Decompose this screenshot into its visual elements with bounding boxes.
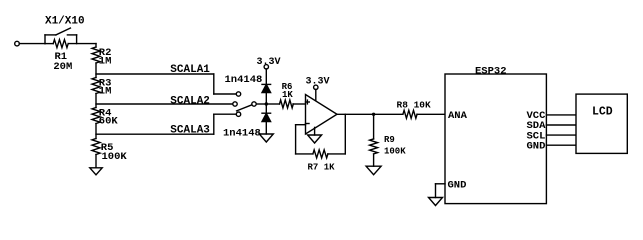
wire ESP32 GND	[436, 184, 446, 198]
wire SCL	[546, 134, 576, 136]
resistor R7	[313, 150, 328, 158]
resistor R9	[370, 114, 378, 166]
ground	[90, 168, 102, 175]
node junction	[372, 113, 375, 116]
diode D2 1n4148	[262, 113, 271, 121]
diode D1 1n4148	[262, 84, 271, 92]
switch X1/X10	[45, 28, 77, 43]
svg-text:SCALA3: SCALA3	[170, 124, 210, 136]
svg-text:R9: R9	[384, 135, 395, 145]
resistor R8	[403, 110, 417, 118]
svg-text:R8 10K: R8 10K	[397, 99, 432, 110]
wire	[265, 122, 267, 134]
svg-text:1M: 1M	[99, 86, 112, 98]
svg-text:100K: 100K	[384, 146, 406, 156]
ground	[429, 198, 443, 206]
node junction	[265, 102, 268, 105]
wire SDA	[546, 124, 576, 126]
svg-text:SCALA1: SCALA1	[170, 64, 210, 76]
op-amp U1	[306, 95, 338, 135]
wire to ESP32 ANA	[417, 113, 445, 115]
wire	[265, 69, 267, 84]
power 3.3V (op-amp)	[305, 77, 329, 90]
wire output	[337, 113, 403, 115]
svg-text:ANA: ANA	[448, 110, 468, 122]
wire	[256, 103, 266, 105]
ground	[366, 166, 381, 175]
svg-text:GND: GND	[527, 141, 546, 153]
resistor R6	[266, 100, 305, 108]
svg-text:R7 1K: R7 1K	[308, 162, 336, 172]
wire	[315, 90, 317, 101]
svg-text:1n4148: 1n4148	[225, 74, 263, 86]
svg-text:60K: 60K	[99, 116, 119, 128]
wire	[19, 43, 45, 45]
wire	[265, 93, 267, 114]
wire net SCALA2	[96, 103, 233, 105]
svg-text:100K: 100K	[102, 151, 128, 163]
resistor R1	[45, 40, 96, 48]
svg-text:1M: 1M	[99, 56, 112, 68]
switch SW1 selector	[233, 92, 256, 117]
svg-text:SCALA2: SCALA2	[170, 95, 210, 107]
IC LCD box	[576, 94, 627, 153]
resistor R3	[92, 78, 100, 108]
svg-text:1n4148: 1n4148	[223, 127, 261, 139]
svg-text:20M: 20M	[53, 61, 72, 73]
resistor R2	[92, 44, 100, 78]
wire GND	[546, 144, 576, 146]
wire feedback	[328, 114, 345, 154]
ground	[259, 134, 273, 142]
power 3.3V (diode clamp)	[256, 57, 280, 69]
svg-text:X1/X10: X1/X10	[45, 15, 85, 27]
wire feedback	[296, 125, 313, 154]
resistor R4	[92, 108, 100, 139]
svg-text:ESP32: ESP32	[475, 65, 507, 77]
node input terminal	[15, 41, 20, 46]
svg-text:1K: 1K	[282, 90, 293, 100]
svg-text:LCD: LCD	[592, 106, 613, 119]
IC ESP32 box	[445, 74, 546, 204]
resistor R5	[92, 139, 100, 168]
wire VCC	[546, 114, 576, 116]
ground (op-amp)	[308, 127, 322, 143]
wire net SCALA1	[96, 74, 236, 94]
svg-text:GND: GND	[448, 179, 467, 191]
wire net SCALA3	[96, 114, 236, 134]
